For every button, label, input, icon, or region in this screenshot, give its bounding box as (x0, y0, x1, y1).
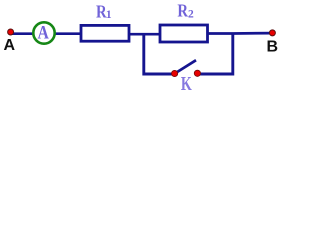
switch contact dot left (172, 70, 178, 76)
ammeter U1 (33, 22, 54, 43)
wire from resistor R1 to resistor R2 (129, 33, 160, 36)
wire right branch from switch up to main wire (199, 33, 233, 74)
node A dot (8, 29, 14, 35)
wire left branch down to switch (144, 34, 172, 75)
svg-text:2: 2 (188, 9, 194, 21)
svg-text:A: A (38, 23, 50, 43)
svg-text:A: A (4, 37, 16, 54)
resistor R1 (81, 25, 129, 41)
switch contact dot right (194, 70, 200, 76)
label R2 (177, 0, 194, 21)
switch K blade (175, 60, 196, 73)
wire from resistor R2 to node B (208, 32, 272, 35)
label R1 (96, 1, 112, 22)
wire from node A to ammeter (10, 32, 33, 35)
svg-text:K: K (181, 73, 193, 95)
node B dot (269, 30, 275, 36)
wire from ammeter to resistor R1 (55, 32, 81, 35)
resistor R2 (160, 25, 208, 42)
svg-text:1: 1 (106, 9, 112, 21)
svg-text:B: B (267, 39, 279, 56)
